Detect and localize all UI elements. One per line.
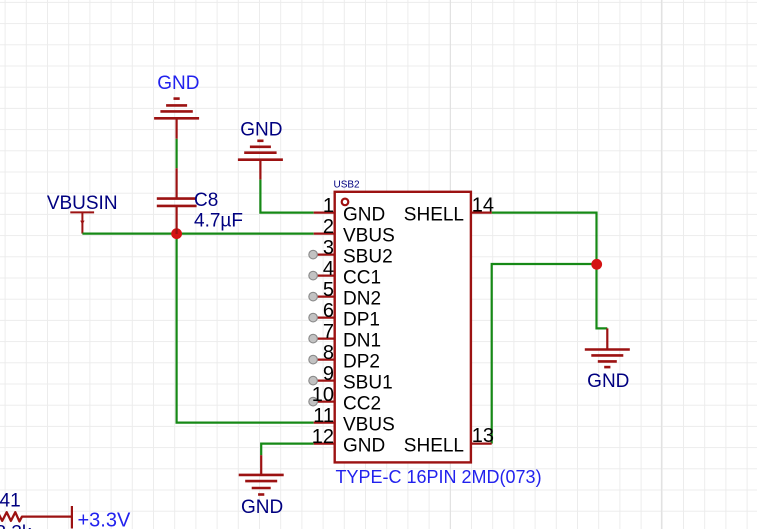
svg-text:4: 4 bbox=[323, 258, 334, 280]
svg-text:SHELL: SHELL bbox=[404, 204, 464, 225]
svg-text:USB2: USB2 bbox=[334, 180, 361, 191]
ground GND1 (top, above C8) bbox=[154, 99, 199, 139]
svg-text:DP2: DP2 bbox=[343, 351, 380, 372]
ground GND4 (below pin 12) bbox=[239, 455, 284, 494]
no-connect dots pins 3-10 bbox=[309, 250, 318, 406]
pin numbers left bbox=[312, 195, 334, 448]
svg-text:DN2: DN2 bbox=[343, 288, 381, 309]
ground GND3 (right) bbox=[585, 328, 630, 367]
svg-text:GND: GND bbox=[157, 73, 199, 94]
svg-text:6: 6 bbox=[323, 300, 334, 322]
svg-text:10: 10 bbox=[312, 384, 334, 406]
svg-text:11: 11 bbox=[313, 405, 334, 427]
svg-text:GND: GND bbox=[240, 119, 282, 140]
svg-text:41: 41 bbox=[0, 491, 21, 512]
wire junction to pin11 bbox=[177, 234, 314, 423]
capacitor C8 bbox=[157, 168, 197, 234]
wire pin14 to GND3 bbox=[492, 213, 608, 329]
svg-text:8: 8 bbox=[323, 342, 334, 364]
svg-text:GND: GND bbox=[241, 497, 283, 518]
svg-text:DN1: DN1 bbox=[343, 330, 381, 351]
junction node at C8/VBUS bbox=[171, 228, 182, 239]
svg-text:VBUSIN: VBUSIN bbox=[47, 193, 118, 214]
svg-text:9: 9 bbox=[323, 363, 334, 385]
svg-text:GND: GND bbox=[343, 204, 385, 225]
svg-text:7: 7 bbox=[323, 321, 334, 343]
net port VBUSIN bbox=[70, 212, 94, 233]
svg-text:CC1: CC1 bbox=[343, 267, 381, 288]
svg-text:GND: GND bbox=[343, 435, 385, 456]
svg-text:5: 5 bbox=[323, 279, 334, 301]
svg-text:C8: C8 bbox=[194, 190, 218, 211]
wire pin1 to GND2 bbox=[260, 180, 313, 213]
ground GND2 (above pin 1) bbox=[238, 141, 283, 180]
svg-text:1: 1 bbox=[323, 195, 334, 217]
svg-text:VBUS: VBUS bbox=[343, 225, 395, 246]
svg-text:2: 2 bbox=[323, 216, 334, 238]
svg-text:13: 13 bbox=[472, 425, 494, 447]
wire pin12 to GND4 bbox=[261, 444, 314, 456]
svg-text:+3.3V: +3.3V bbox=[78, 509, 131, 529]
wire C8 top lead to GND1 bbox=[176, 139, 178, 168]
power port +3.3V bar bbox=[71, 506, 73, 529]
connector USB2 body bbox=[335, 192, 471, 463]
svg-text:14: 14 bbox=[472, 195, 494, 217]
pin numbers right bbox=[472, 195, 494, 448]
svg-text:GND: GND bbox=[587, 371, 629, 392]
svg-text:DP1: DP1 bbox=[343, 309, 380, 330]
svg-text:SBU1: SBU1 bbox=[343, 372, 393, 393]
pin names bbox=[343, 204, 395, 456]
svg-text:CC2: CC2 bbox=[343, 393, 381, 414]
svg-text:4.7µF: 4.7µF bbox=[194, 211, 243, 232]
pin 1 indicator circle bbox=[342, 199, 349, 206]
svg-text:SHELL: SHELL bbox=[404, 435, 464, 456]
pin names SHELL bbox=[404, 204, 464, 456]
resistor R41 (partial at edge) bbox=[0, 512, 72, 521]
wire pin13 riser bbox=[492, 264, 597, 444]
junction node on SHELL net bbox=[591, 259, 602, 270]
svg-text:VBUS: VBUS bbox=[343, 414, 395, 435]
svg-text:TYPE-C 16PIN 2MD(073): TYPE-C 16PIN 2MD(073) bbox=[336, 467, 542, 487]
wire VBUSIN to pin2 bbox=[82, 233, 313, 235]
svg-text:SBU2: SBU2 bbox=[343, 246, 393, 267]
svg-text:3: 3 bbox=[323, 237, 334, 259]
pin stubs left pins 1-12 bbox=[313, 213, 335, 444]
pin stubs right pins 14,13 bbox=[471, 213, 492, 444]
svg-text:3.3k: 3.3k bbox=[0, 522, 32, 529]
svg-text:12: 12 bbox=[312, 426, 334, 448]
